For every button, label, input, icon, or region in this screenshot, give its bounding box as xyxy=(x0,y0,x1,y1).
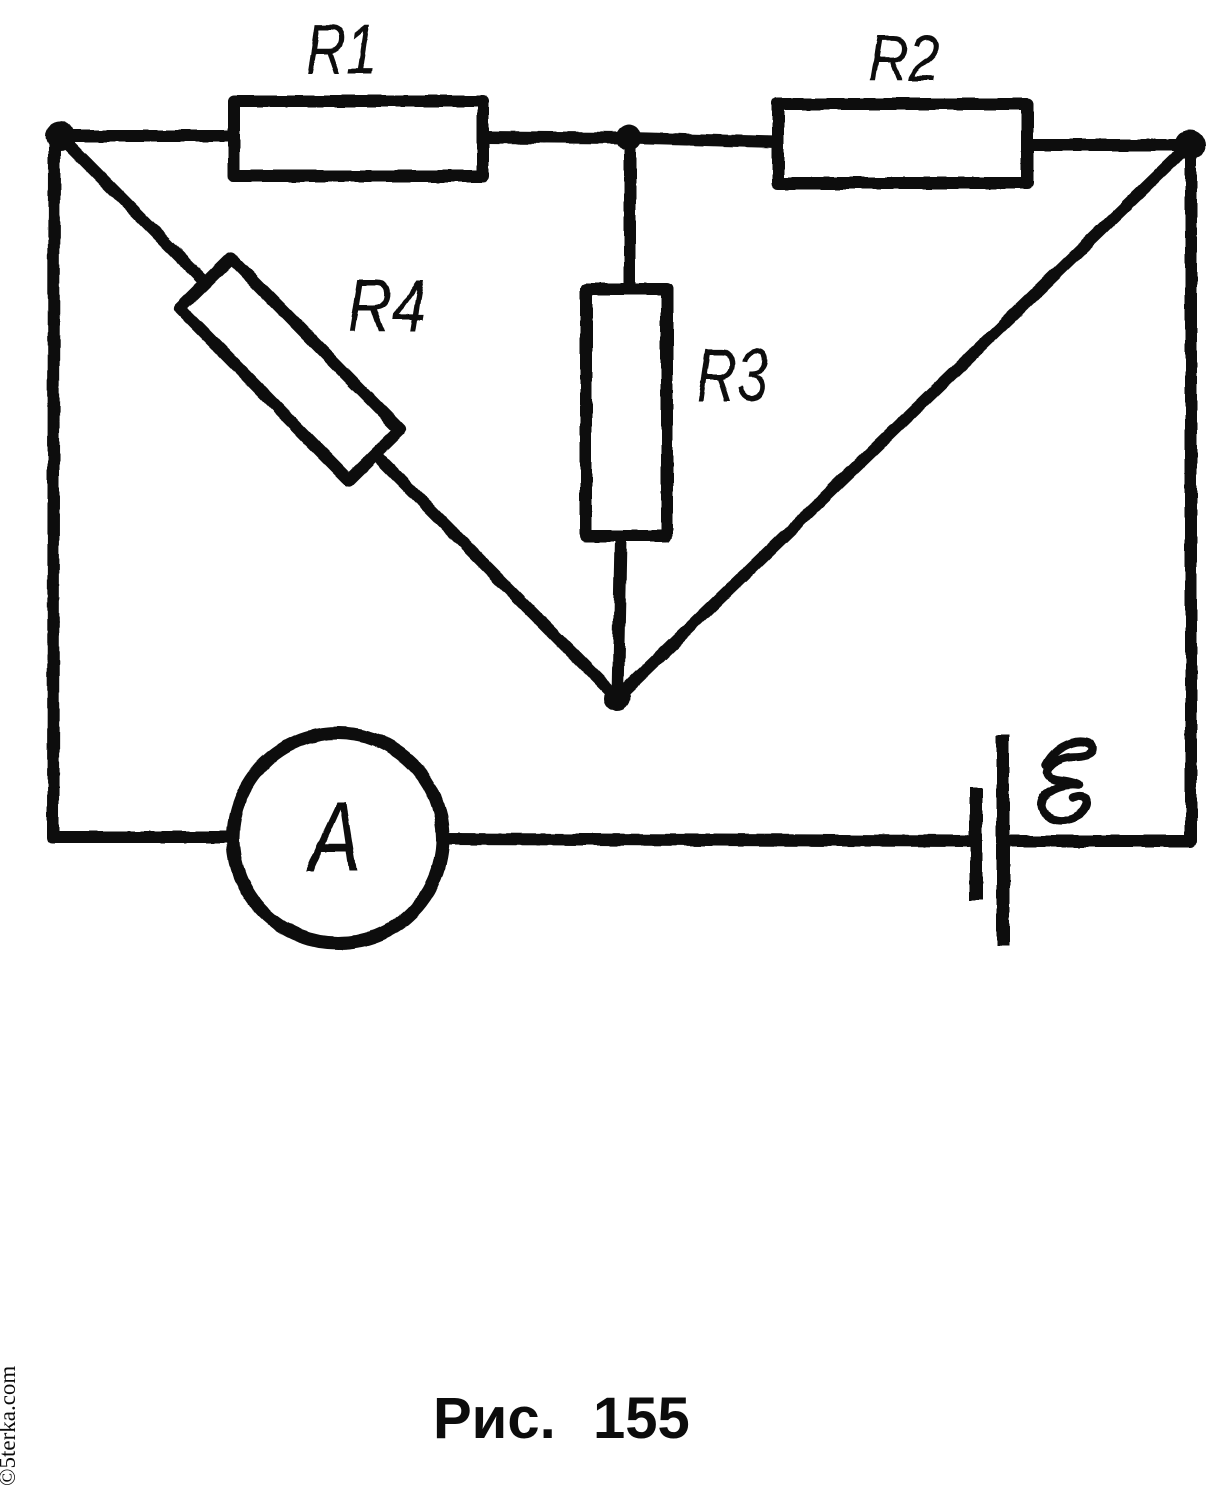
ammeter A circle xyxy=(233,733,443,943)
svg-text:©5terka.com: ©5terka.com xyxy=(0,1366,20,1486)
wire middle node down to R3 xyxy=(624,140,636,287)
node top-right xyxy=(1175,130,1205,160)
resistor R4 xyxy=(180,258,400,480)
svg-text:A: A xyxy=(305,781,362,892)
svg-text:Рис.: Рис. xyxy=(433,1386,556,1451)
resistor R3 xyxy=(586,289,667,536)
node middle-top xyxy=(616,125,642,151)
wire middle node to R2 xyxy=(629,138,777,142)
battery cell E xyxy=(976,735,1003,945)
wire R2 to top-right node xyxy=(1028,139,1190,151)
svg-text:R1: R1 xyxy=(306,10,377,89)
resistor R1 xyxy=(234,101,483,176)
label EMF script E xyxy=(1041,742,1093,821)
wire diagonal left (node A to bottom node) xyxy=(62,138,617,698)
wire battery to bottom-right corner xyxy=(1011,148,1191,841)
battery long plate xyxy=(997,735,1010,945)
svg-text:R2: R2 xyxy=(868,22,940,95)
wire R1 to middle node xyxy=(484,137,629,138)
svg-text:155: 155 xyxy=(593,1386,690,1451)
battery short plate xyxy=(970,787,983,900)
wire R3 to bottom node xyxy=(618,538,621,698)
wire bottom ammeter to battery xyxy=(444,839,968,841)
node top-left xyxy=(45,121,75,151)
svg-text:R3: R3 xyxy=(696,334,768,418)
wire top-left node to R1 xyxy=(60,130,233,142)
node bottom-middle xyxy=(604,685,630,711)
resistor R2 xyxy=(778,104,1027,183)
caption Рис. 155 xyxy=(433,1386,690,1451)
wire diagonal right (bottom node to top-right node) xyxy=(617,146,1188,698)
wire left vertical xyxy=(53,140,228,837)
svg-text:R4: R4 xyxy=(347,265,426,347)
